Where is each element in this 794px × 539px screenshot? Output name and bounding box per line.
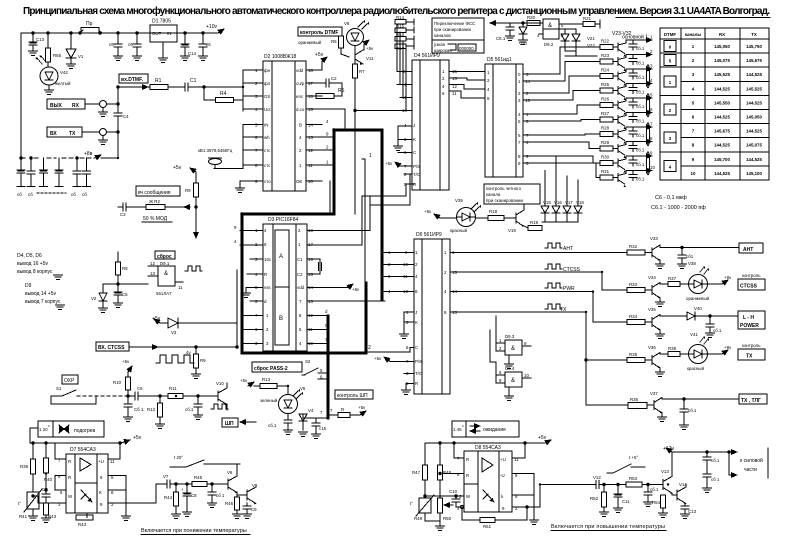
D4 right wires to D5 — [449, 72, 485, 99]
svg-text:+5v: +5v — [424, 209, 432, 214]
svg-text:R24: R24 — [601, 68, 610, 73]
wire to V4 — [303, 414, 328, 418]
svg-text:+9v: +9v — [724, 345, 732, 350]
+5v V3 row — [152, 316, 161, 322]
svg-text:C11: C11 — [622, 499, 630, 504]
svg-text:145,525: 145,525 — [746, 86, 762, 91]
label контроль DTMF — [298, 27, 342, 36]
resistor R54 — [662, 493, 664, 495]
svg-text:IN: IN — [264, 123, 268, 128]
wire CTCSS — [129, 346, 158, 348]
svg-text:+U: +U — [500, 457, 506, 462]
comparator triangle — [80, 458, 91, 471]
resistor R8 — [116, 262, 121, 275]
svg-text:POWER: POWER — [740, 323, 759, 329]
resistor R32 — [627, 250, 645, 255]
svg-text:000000: 000000 — [459, 46, 474, 51]
svg-text:оранжевый: оранжевый — [686, 296, 710, 301]
transistor V14 — [676, 490, 678, 500]
svg-text:ВХ. CTCSS: ВХ. CTCSS — [98, 345, 125, 351]
resistor R20 — [527, 21, 540, 26]
transistor V32 — [613, 177, 618, 179]
resistor R15 — [395, 28, 406, 33]
svg-text:145,675: 145,675 — [746, 58, 762, 63]
wire — [462, 312, 627, 360]
svg-text:11: 11 — [178, 285, 183, 290]
svg-text:оранжевый: оранжевый — [298, 40, 322, 45]
capacitor сб.1 — [709, 315, 711, 317]
svg-text:144,525: 144,525 — [746, 72, 762, 77]
svg-text:145,700: 145,700 — [714, 157, 730, 162]
svg-text:R52: R52 — [590, 496, 599, 501]
transistor V29 — [613, 133, 618, 135]
svg-text:R35: R35 — [629, 352, 638, 357]
svg-text:enc: enc — [296, 94, 304, 99]
bus corner top — [242, 130, 382, 353]
capacitor C8 — [186, 484, 188, 493]
svg-text:R: R — [341, 407, 344, 412]
svg-text:C: C — [413, 150, 416, 155]
svg-text:10: 10 — [650, 165, 655, 170]
resistor R43 — [86, 513, 88, 518]
resistor R12 — [159, 396, 161, 403]
svg-text:сто: сто — [264, 179, 271, 184]
svg-text:vss: vss — [264, 285, 271, 290]
regulator D1 7805 — [150, 25, 177, 42]
transistor V33 — [645, 252, 652, 254]
transistor V37 — [647, 404, 654, 406]
label вч сообщения — [136, 186, 180, 196]
svg-text:ВХ: ВХ — [50, 131, 57, 137]
pulse АНТ — [545, 243, 562, 248]
svg-text:R50: R50 — [443, 516, 452, 521]
svg-text:каналы: каналы — [685, 32, 702, 37]
svg-text:V4: V4 — [308, 408, 314, 413]
resistor R14 — [395, 20, 406, 25]
svg-text:R: R — [466, 457, 469, 462]
capacitor c6 — [117, 33, 119, 44]
transistor V25 — [613, 75, 618, 77]
comparator triangle — [482, 458, 493, 472]
svg-text:wh: wh — [264, 135, 270, 140]
svg-text:D9.4: D9.4 — [505, 366, 515, 371]
wire d.co pin15 — [322, 108, 345, 110]
svg-text:сб.1: сб.1 — [636, 104, 645, 109]
svg-text:V16: V16 — [554, 200, 562, 205]
wire — [85, 103, 100, 105]
diode V40 — [687, 312, 695, 320]
svg-text:+10v: +10v — [206, 24, 217, 30]
svg-text:контроль: контроль — [742, 273, 761, 278]
svg-text:R: R — [68, 475, 71, 480]
capacitor V7 — [167, 480, 170, 488]
svg-text:C: C — [415, 345, 418, 350]
D5 right output wires — [523, 74, 538, 163]
svg-text:R4: R4 — [220, 91, 227, 97]
capacitor сб.1 — [211, 484, 213, 492]
svg-text:к силовой: к силовой — [740, 457, 763, 464]
resistor R25 — [600, 88, 613, 93]
svg-text:сб: сб — [82, 192, 87, 197]
svg-text:части: части — [744, 467, 757, 473]
svg-text:D9.3: D9.3 — [505, 334, 515, 339]
resistor R48 — [439, 443, 441, 465]
wire — [168, 86, 185, 88]
svg-text:Пр: Пр — [86, 21, 93, 27]
svg-text:D6 561ИР9: D6 561ИР9 — [416, 232, 442, 238]
resistor R5 — [316, 94, 334, 99]
svg-text:R: R — [68, 459, 71, 464]
svg-text:RX: RX — [719, 32, 725, 37]
svg-text:контроль четного: контроль четного — [486, 186, 522, 191]
svg-text:ОХР: ОХР — [64, 378, 75, 384]
svg-text:R26: R26 — [601, 97, 610, 102]
wire from pin2 — [156, 484, 167, 503]
svg-text:R16: R16 — [396, 32, 405, 37]
svg-text:V39: V39 — [455, 198, 463, 203]
svg-text:cu/p: cu/p — [296, 81, 305, 86]
capacitor C2 — [322, 82, 326, 84]
svg-text:V3: V3 — [171, 330, 177, 335]
svg-text:Ж R2: Ж R2 — [149, 199, 160, 204]
+12v wire — [663, 446, 674, 452]
svg-text:+12v: +12v — [663, 446, 674, 452]
svg-text:13: 13 — [150, 271, 155, 276]
transistor V26 — [613, 90, 618, 92]
svg-text:144,525: 144,525 — [746, 129, 762, 134]
svg-text:D4 561ИР9: D4 561ИР9 — [414, 53, 440, 59]
capacitor C3 — [118, 206, 123, 208]
svg-text:сброс PASS-2: сброс PASS-2 — [254, 365, 288, 372]
svg-text:145,075: 145,075 — [746, 143, 762, 148]
svg-text:V7: V7 — [163, 474, 169, 479]
svg-text:V15: V15 — [543, 200, 551, 205]
svg-text:50 % МОД: 50 % МОД — [143, 216, 168, 222]
diode V4 — [299, 414, 307, 421]
svg-text:145,525: 145,525 — [714, 72, 730, 77]
svg-text:561ЛА7: 561ЛА7 — [156, 291, 172, 296]
svg-text:TX: TX — [746, 354, 753, 360]
svg-text:R25: R25 — [601, 82, 610, 87]
D6 right pin wires — [450, 253, 462, 312]
svg-text:+5v: +5v — [538, 435, 547, 441]
IC D6 561ИР9 — [414, 239, 450, 394]
svg-text:подогрев: подогрев — [74, 428, 95, 434]
connector pair — [646, 123, 649, 146]
diode V2 — [99, 293, 107, 301]
svg-text:CTCSS: CTCSS — [740, 284, 758, 290]
riser wires to D4 area — [362, 196, 370, 245]
cap notes — [651, 195, 706, 211]
svg-text:V6: V6 — [227, 470, 233, 475]
svg-text:K: K — [99, 490, 102, 495]
svg-text:R53: R53 — [629, 476, 638, 481]
svg-text:+9v: +9v — [724, 275, 732, 280]
fuse Пр — [81, 28, 99, 34]
svg-text:R15: R15 — [396, 24, 405, 29]
svg-text:сб.1: сб.1 — [636, 61, 645, 66]
svg-text:DTMF: DTMF — [664, 32, 677, 37]
svg-text:D1 7805: D1 7805 — [152, 19, 171, 25]
svg-text:D2 1008ВЖ18: D2 1008ВЖ18 — [264, 54, 297, 60]
crystal kB1 — [198, 148, 233, 153]
capacitor C13 — [32, 33, 34, 42]
svg-text:С6.1: С6.1 — [496, 36, 506, 41]
svg-text:С3: С3 — [120, 212, 126, 217]
svg-text:10: 10 — [524, 373, 529, 378]
wire to D2 pin1 — [188, 86, 243, 88]
svg-text:ТХ , ТЛГ: ТХ , ТЛГ — [741, 398, 761, 404]
LED V39 red — [457, 208, 476, 227]
resistor R36 — [628, 403, 647, 409]
svg-text:R17: R17 — [396, 46, 405, 51]
transistor V31 — [613, 162, 618, 164]
capacitor сб.1 — [706, 452, 708, 457]
capacitor сб.1 — [632, 127, 634, 131]
pulse TX — [545, 304, 562, 309]
svg-text:L - H: L - H — [743, 315, 754, 321]
output АНТ — [739, 243, 763, 253]
capacitor сб.1 — [632, 98, 634, 102]
wire channel 1 — [626, 39, 652, 41]
svg-text:vdd: vdd — [297, 285, 305, 290]
wire — [462, 272, 627, 290]
svg-text:узкая: узкая — [434, 42, 446, 47]
text к силовой части — [740, 457, 763, 473]
svg-text:R49: R49 — [414, 516, 423, 521]
svg-text:D5 561ид1: D5 561ид1 — [487, 57, 512, 63]
svg-text:+8в: +8в — [84, 151, 93, 157]
svg-text:C2: C2 — [297, 272, 303, 277]
+5v to D2 pin18 — [321, 61, 323, 70]
svg-text:t 20°: t 20° — [174, 455, 183, 460]
connector circle — [100, 129, 107, 136]
svg-text:V8: V8 — [252, 483, 258, 488]
LED V38 orange — [689, 275, 708, 294]
svg-text:АНТ: АНТ — [743, 247, 753, 253]
resistor R23 — [600, 59, 613, 64]
transistor V19 — [504, 217, 516, 219]
svg-text:С2: С2 — [331, 76, 337, 81]
svg-text:сб 1: сб 1 — [711, 477, 720, 482]
svg-text:R1: R1 — [155, 78, 162, 84]
svg-text:R21: R21 — [583, 16, 592, 21]
svg-text:&: & — [164, 271, 168, 277]
svg-text:желтый: желтый — [55, 81, 71, 86]
svg-text:контроль: контроль — [742, 343, 761, 348]
svg-text:V13: V13 — [661, 469, 669, 474]
wire DTMF in — [118, 86, 148, 88]
svg-text:сб 1: сб 1 — [216, 493, 225, 498]
svg-text:с6: с6 — [109, 42, 114, 47]
svg-text:V5: V5 — [300, 386, 306, 391]
svg-text:Сб 1.: Сб 1. — [134, 407, 145, 412]
resistor R24 — [600, 74, 613, 79]
IC D7 554СА3 — [66, 454, 108, 513]
svg-text:+5v: +5v — [358, 405, 366, 410]
transistor V34 — [645, 289, 652, 291]
svg-text:R37: R37 — [668, 276, 677, 281]
output CTCSS — [742, 273, 761, 278]
wire — [462, 292, 627, 322]
wire d.co riser — [344, 109, 346, 130]
svg-text:V2: V2 — [91, 296, 97, 301]
svg-text:R30: R30 — [601, 155, 610, 160]
svg-text:канала: канала — [486, 192, 501, 197]
svg-text:R6: R6 — [331, 39, 337, 44]
zener V1 — [70, 33, 72, 49]
svg-text:144,525: 144,525 — [714, 86, 730, 91]
svg-text:сб.1: сб.1 — [636, 133, 645, 138]
svg-text:R41: R41 — [19, 514, 28, 519]
svg-text:с6: с6 — [128, 42, 133, 47]
resistor R18 — [476, 217, 489, 219]
svg-text:OUT: OUT — [152, 31, 162, 36]
svg-text:&: & — [548, 23, 552, 29]
capacitor сб.1 — [127, 396, 129, 404]
svg-text:D3 PIC16F84: D3 PIC16F84 — [268, 217, 299, 223]
resistor R1 — [150, 85, 168, 90]
transistor V28 — [613, 119, 618, 121]
svg-text:R20: R20 — [527, 15, 536, 20]
svg-text:С8: С8 — [191, 493, 197, 498]
svg-text:4v: 4v — [186, 350, 191, 355]
LED V41 red — [689, 345, 708, 364]
wire channel 9 — [626, 155, 652, 157]
svg-text:V12: V12 — [593, 475, 601, 480]
svg-text:145,750: 145,750 — [746, 44, 762, 49]
svg-text:K: K — [415, 320, 418, 325]
wire riser2 — [370, 174, 410, 205]
D7 pin wires right — [108, 443, 156, 516]
svg-text:ожидание: ожидание — [483, 427, 506, 433]
svg-text:С1: С1 — [190, 78, 197, 84]
svg-text:R9: R9 — [200, 358, 206, 363]
svg-text:V40: V40 — [694, 306, 702, 311]
connector pair — [646, 94, 649, 117]
switch S2 — [305, 359, 311, 364]
svg-text:R29: R29 — [601, 140, 610, 145]
svg-text:С7: С7 — [42, 487, 48, 492]
svg-text:145,675: 145,675 — [714, 129, 730, 134]
diode V3 — [168, 318, 178, 328]
gate D9.2 — [543, 19, 559, 39]
svg-text:145,050: 145,050 — [746, 115, 762, 120]
svg-text:+: + — [181, 487, 184, 492]
vss ground — [245, 288, 247, 293]
D9 note — [25, 283, 61, 305]
K arrow symbol — [81, 490, 92, 502]
output POWER — [738, 311, 765, 329]
svg-text:R9: R9 — [185, 188, 191, 193]
D8 pin wires left — [425, 443, 464, 507]
wire ТЛГ — [586, 360, 628, 405]
resistor R31 — [600, 175, 613, 180]
svg-text:TX: TX — [751, 32, 757, 37]
svg-text:сб.1: сб.1 — [650, 487, 659, 492]
svg-text:S2: S2 — [305, 359, 311, 364]
svg-text:+5v: +5v — [385, 161, 393, 166]
transistor V36 — [645, 359, 652, 361]
label подогрев — [38, 421, 104, 437]
wire channel 2 — [626, 54, 652, 56]
connector circle — [100, 101, 107, 108]
capacitor C9 — [246, 503, 248, 506]
capacitor сб.1 — [632, 55, 634, 59]
svg-text:+5v: +5v — [240, 378, 248, 383]
svg-text:11: 11 — [110, 459, 115, 464]
+5v R10 — [122, 359, 130, 364]
svg-text:сб.1: сб.1 — [268, 423, 277, 428]
svg-text:R5: R5 — [338, 88, 345, 94]
gate D9.4 — [505, 366, 515, 371]
svg-text:-U: -U — [500, 473, 505, 478]
resistor R40 — [45, 443, 47, 458]
capacitor сб.1 — [632, 171, 634, 175]
DTMF button 3 — [664, 132, 676, 143]
D8 pin wires right — [512, 443, 540, 520]
capacitor сб.1 — [287, 414, 289, 421]
svg-text:стс: стс — [264, 163, 271, 168]
svg-text:D4, D5, D6: D4, D5, D6 — [17, 253, 42, 259]
IC D8 554СА3 — [464, 451, 512, 512]
label контроль ШП — [335, 390, 373, 399]
svg-text:сб.1: сб.1 — [636, 177, 645, 182]
svg-text:сб.1: сб.1 — [713, 328, 722, 333]
D4 left pin wires — [397, 72, 414, 185]
connector pair — [646, 152, 649, 175]
label ВХ CTCSS — [96, 342, 129, 351]
wiper arrow — [444, 504, 453, 506]
D6 left pin wires — [382, 253, 414, 292]
label ФСС box — [432, 18, 484, 53]
svg-text:контроль DTMF: контроль DTMF — [300, 30, 338, 36]
svg-text:R8: R8 — [122, 266, 128, 271]
svg-text:R14: R14 — [396, 15, 405, 20]
svg-text:R40: R40 — [44, 477, 53, 482]
DTMF button 4 — [664, 160, 676, 171]
svg-text:R19: R19 — [530, 220, 539, 225]
svg-text:+U: +U — [98, 459, 104, 464]
wire D9.3 input riser — [495, 316, 497, 343]
capacitor сб.1 — [197, 396, 199, 404]
svg-text:R55: R55 — [53, 53, 62, 58]
svg-text:R51: R51 — [483, 524, 492, 529]
svg-text:А: А — [279, 254, 283, 260]
svg-text:С13: С13 — [36, 37, 45, 42]
gate D9.1 561ЛА7 — [158, 266, 175, 286]
resistor R19 — [524, 226, 528, 228]
svg-text:вывод 14 +5v: вывод 14 +5v — [25, 291, 56, 297]
svg-text:V18: V18 — [576, 200, 584, 205]
svg-text:сб.1: сб.1 — [636, 162, 645, 167]
svg-text:+5v: +5v — [122, 359, 130, 364]
resistor R39 — [32, 443, 34, 459]
svg-text:+5v: +5v — [133, 435, 142, 441]
svg-text:1: 1 — [369, 153, 372, 159]
svg-text:B: B — [279, 316, 283, 322]
wire channel 6 — [626, 112, 652, 114]
+5v R9 chain — [173, 165, 182, 171]
svg-text:GS: GS — [264, 94, 270, 99]
svg-text:V36: V36 — [648, 345, 656, 350]
label ожидание — [452, 421, 519, 437]
resistor R9 — [194, 183, 199, 197]
capacitor C7 — [42, 494, 50, 497]
+5v — [364, 40, 369, 44]
capacitor C5 — [117, 284, 119, 292]
wire 1 riser — [364, 159, 366, 283]
